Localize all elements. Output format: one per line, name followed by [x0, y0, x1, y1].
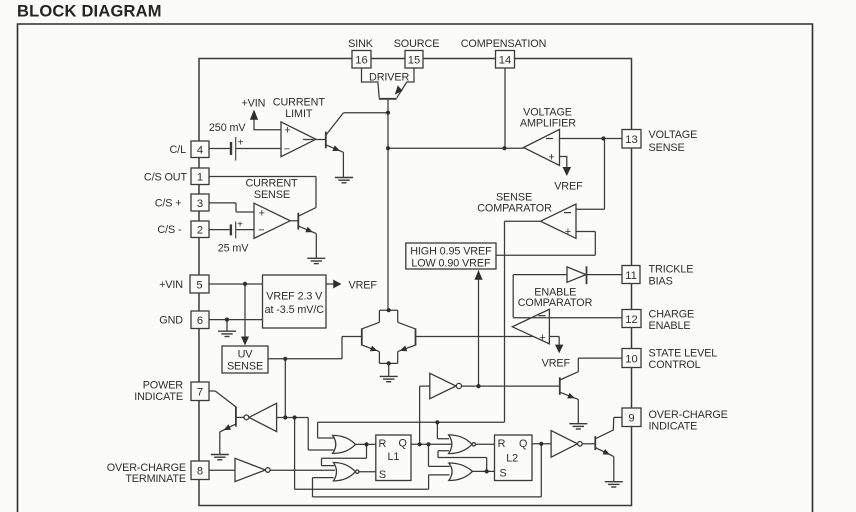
wire L2 Q to inverter [532, 443, 551, 445]
wire R2 lower input cross-couple [438, 451, 487, 472]
wire pin8 to inverter [209, 469, 235, 471]
svg-text:+: + [237, 220, 243, 231]
svg-text:25 mV: 25 mV [218, 242, 250, 254]
transistor Q5 power indicate [220, 407, 244, 455]
transistor Q2 current sense [298, 208, 316, 258]
svg-text:+: + [548, 151, 554, 163]
wire UV node down to logic [284, 359, 286, 418]
svg-text:SENSE: SENSE [649, 142, 685, 154]
block UV SENSE [222, 346, 268, 373]
svg-text:STATE LEVEL: STATE LEVEL [649, 348, 718, 360]
svg-text:6: 6 [197, 315, 203, 327]
pin 16 SINK [352, 51, 371, 69]
wire UV net down to over-charge line [295, 418, 450, 490]
wire voltage amp output line [388, 147, 524, 149]
svg-text:BIAS: BIAS [649, 276, 673, 288]
block HIGH 0.95 VREF LOW 0.90 VREF [406, 243, 496, 269]
pin 11 TRICKLE BIAS [622, 266, 640, 284]
wire S1 output to L1 [359, 471, 376, 473]
wire to R1 lower input [308, 418, 333, 451]
inverter pin8 [235, 458, 265, 481]
svg-text:BLOCK DIAGRAM: BLOCK DIAGRAM [17, 3, 162, 21]
wire buffer input riser from L1 Q [420, 386, 430, 444]
inverter pin7 driver [249, 403, 277, 431]
wire pin8 inverter output to S1 gate [270, 469, 335, 471]
svg-text:12: 12 [625, 314, 637, 326]
battery 250mV [230, 142, 232, 155]
wire source pin15 to driver emitter [397, 68, 414, 98]
svg-text:UV: UV [238, 349, 254, 361]
svg-text:OVER-CHARGE: OVER-CHARGE [649, 409, 728, 421]
wire Q2 node down to over-charge net [540, 444, 542, 497]
transistor Q3 state level [560, 358, 622, 423]
wire UV sense output [268, 358, 342, 360]
wire R1 output to L1 [356, 443, 376, 445]
svg-text:VREF 2.3 V: VREF 2.3 V [266, 291, 323, 303]
wire pin1 C/S OUT to Q2 collector [209, 177, 316, 208]
pin 10 STATE LEVEL CONTROL [622, 349, 641, 368]
wire to R1 upper input [318, 422, 334, 438]
wire sense comp minus riser [576, 139, 605, 210]
wire driver output main vertical [387, 99, 389, 310]
latch L2 [495, 435, 533, 481]
svg-text:11: 11 [625, 270, 637, 282]
svg-text:TRICKLE: TRICKLE [649, 264, 694, 276]
svg-text:8: 8 [197, 466, 203, 478]
svg-text:S: S [379, 469, 386, 481]
ground Q3 emitter [569, 424, 587, 429]
gate S2 OR [449, 463, 473, 481]
op-amp CURRENT LIMIT [281, 122, 316, 157]
transistor DRIVER bar [379, 98, 397, 100]
transistor pair cross-coupled [362, 310, 416, 376]
svg-text:TERMINATE: TERMINATE [125, 473, 186, 485]
svg-text:C/S OUT: C/S OUT [144, 172, 188, 184]
svg-text:+: + [539, 332, 545, 344]
svg-text:+: + [284, 125, 290, 137]
wire current-limit collector to main vertical [343, 112, 388, 114]
pin 7 POWER INDICATE [191, 382, 209, 401]
ground Q4 emitter [605, 482, 623, 487]
svg-text:250 mV: 250 mV [209, 122, 247, 134]
wire sense comp line to R gates [318, 421, 505, 423]
svg-text:−: − [284, 143, 290, 155]
svg-text:SINK: SINK [348, 38, 374, 50]
pin 13 VOLTAGE SENSE [622, 130, 641, 149]
wire sense comp output down to logic [505, 221, 541, 422]
svg-text:3: 3 [197, 198, 203, 210]
svg-text:2: 2 [197, 225, 203, 237]
wire pin4 to battery [209, 148, 230, 150]
pin 14 COMPENSATION [496, 51, 515, 69]
svg-text:9: 9 [628, 413, 634, 425]
ground pin6 [226, 320, 228, 331]
svg-text:VREF: VREF [554, 181, 583, 193]
wire S2 output to L2 [472, 470, 494, 472]
comparator ENABLE [512, 309, 549, 344]
wire pin7 to Q5 collector [209, 391, 236, 407]
svg-text:COMPARATOR: COMPARATOR [518, 297, 593, 309]
svg-text:1: 1 [197, 172, 203, 184]
wire VA minus input to pin13 [560, 138, 623, 140]
wire battery to CS - input [236, 229, 254, 231]
wire inverter input net [277, 417, 309, 419]
wire to left base of pair [342, 337, 362, 359]
svg-text:4: 4 [197, 145, 203, 157]
ground pair emitters [380, 376, 398, 381]
svg-text:VREF: VREF [542, 358, 571, 370]
svg-text:5: 5 [196, 280, 202, 292]
svg-text:CURRENT: CURRENT [273, 97, 326, 109]
svg-text:POWER: POWER [143, 380, 184, 392]
wire battery to CL - input [236, 148, 281, 150]
svg-text:+: + [238, 138, 244, 149]
svg-text:HIGH 0.95 VREF: HIGH 0.95 VREF [410, 246, 492, 258]
wire pin6 to VREF block [209, 319, 263, 321]
wire diode line to pin12 line [513, 275, 622, 318]
wire pin14 compensation drop [504, 68, 506, 148]
svg-text:S: S [499, 468, 506, 480]
svg-text:SENSE: SENSE [254, 189, 290, 201]
svg-text:SOURCE: SOURCE [394, 38, 440, 50]
wire sink pin16 to driver base [362, 68, 380, 98]
wire L1 Q output [411, 443, 453, 445]
wire sense comp plus to HIGH/LOW box [496, 232, 595, 256]
diode trickle bias [513, 274, 567, 276]
wire state buffer output to Q3 base [462, 385, 560, 387]
ground Q1 emitter [335, 178, 353, 183]
svg-text:L2: L2 [506, 453, 518, 465]
svg-text:LIMIT: LIMIT [285, 108, 313, 120]
svg-text:10: 10 [625, 354, 637, 366]
svg-text:INDICATE: INDICATE [649, 421, 698, 433]
svg-text:−: − [258, 224, 264, 236]
svg-text:L1: L1 [387, 451, 399, 463]
wire Q to S2 upper input [429, 444, 450, 466]
svg-text:C/L: C/L [169, 144, 186, 156]
svg-text:CURRENT: CURRENT [245, 178, 298, 190]
gate R2 NOR [449, 435, 472, 454]
svg-text:15: 15 [408, 55, 420, 67]
wire CL output to Q1 base [316, 139, 326, 141]
wire VA plus to VREF arrow [560, 157, 567, 168]
wire +VIN arrow stem to CL + input [254, 117, 281, 130]
wire pin3 to CS + input [209, 203, 254, 212]
pin 12 CHARGE ENABLE [622, 310, 641, 328]
wire enable plus VREF stub [558, 337, 560, 345]
wire S1 lower input from L2 S net [313, 478, 542, 497]
svg-text:7: 7 [197, 387, 203, 399]
svg-text:Q: Q [398, 438, 406, 450]
inverter over-charge indicate [551, 431, 577, 458]
ground Q5 emitter [211, 455, 229, 460]
gate S1 NOR [333, 463, 355, 481]
pin 5 +VIN [190, 275, 209, 293]
pin 6 GND [191, 311, 209, 329]
svg-text:COMPENSATION: COMPENSATION [461, 38, 547, 50]
transistor Q4 over-charge indicate [595, 417, 622, 481]
pin 3 C/S + [191, 194, 209, 211]
svg-text:+: + [565, 226, 571, 238]
battery 25mV [230, 224, 232, 235]
wire inverter to Q4 base [582, 443, 595, 445]
op-amp SENSE COMPARATOR [541, 204, 577, 238]
svg-text:Q: Q [519, 438, 527, 450]
svg-text:+: + [259, 207, 265, 219]
svg-text:AMPLIFIER: AMPLIFIER [520, 118, 576, 130]
svg-text:C/S +: C/S + [155, 198, 182, 210]
wire L2 R gate upper input drop [437, 422, 449, 439]
transistor DRIVER emitter arrow [395, 85, 403, 94]
svg-text:DRIVER: DRIVER [369, 72, 409, 84]
svg-text:LOW 0.90 VREF: LOW 0.90 VREF [411, 258, 491, 270]
svg-text:14: 14 [499, 55, 511, 67]
svg-text:VREF: VREF [349, 280, 378, 292]
svg-text:R: R [379, 438, 387, 450]
inner diagram box [199, 59, 632, 506]
svg-text:C/S -: C/S - [157, 224, 182, 236]
pin 1 C/S OUT [191, 168, 209, 185]
pin 15 SOURCE [405, 51, 423, 69]
svg-text:VOLTAGE: VOLTAGE [649, 129, 698, 141]
latch L1 [376, 435, 411, 481]
wire state riser to high/low box with arrow [478, 271, 480, 387]
svg-text:GND: GND [159, 315, 183, 327]
wire pin5 to VREF block [209, 283, 263, 285]
+VIN arrow [250, 110, 258, 120]
svg-text:CONTROL: CONTROL [649, 359, 701, 371]
svg-text:INDICATE: INDICATE [134, 391, 183, 403]
svg-text:CHARGE: CHARGE [649, 309, 695, 321]
buffer state logic [430, 373, 456, 398]
wire VREF output arrow [326, 283, 333, 285]
svg-text:R: R [498, 438, 506, 450]
svg-text:13: 13 [625, 134, 637, 146]
op-amp VOLTAGE AMPLIFIER [524, 129, 560, 165]
op-amp CURRENT SENSE [254, 203, 290, 238]
block VREF 2.3V [263, 275, 327, 328]
svg-text:16: 16 [355, 55, 367, 67]
wire R2 output to L2 [476, 443, 495, 445]
svg-text:+VIN: +VIN [159, 279, 183, 291]
gate R1 OR [333, 435, 356, 453]
pin 4 C/L [191, 141, 209, 158]
pin 8 OVER-CHARGE TERMINATE [191, 461, 209, 480]
pin 9 OVER-CHARGE INDICATE [622, 408, 641, 427]
pin 2 C/S - [191, 221, 209, 238]
wire pin2 to battery [209, 229, 230, 231]
svg-text:+VIN: +VIN [241, 98, 265, 110]
wire right base of pair to enable comp plus [416, 336, 560, 338]
wire R1 node feedback to S1 upper input [322, 445, 367, 466]
svg-text:ENABLE: ENABLE [649, 320, 691, 332]
ground Q2 emitter [307, 258, 325, 263]
transistor Q1 current limit [326, 113, 344, 177]
svg-text:COMPARATOR: COMPARATOR [477, 203, 552, 215]
wire node to UV sense with arrow [244, 284, 246, 337]
svg-text:SENSE: SENSE [227, 361, 263, 373]
svg-text:at -3.5 mV/C: at -3.5 mV/C [265, 304, 325, 316]
wire CS output to Q2 base [290, 220, 298, 222]
